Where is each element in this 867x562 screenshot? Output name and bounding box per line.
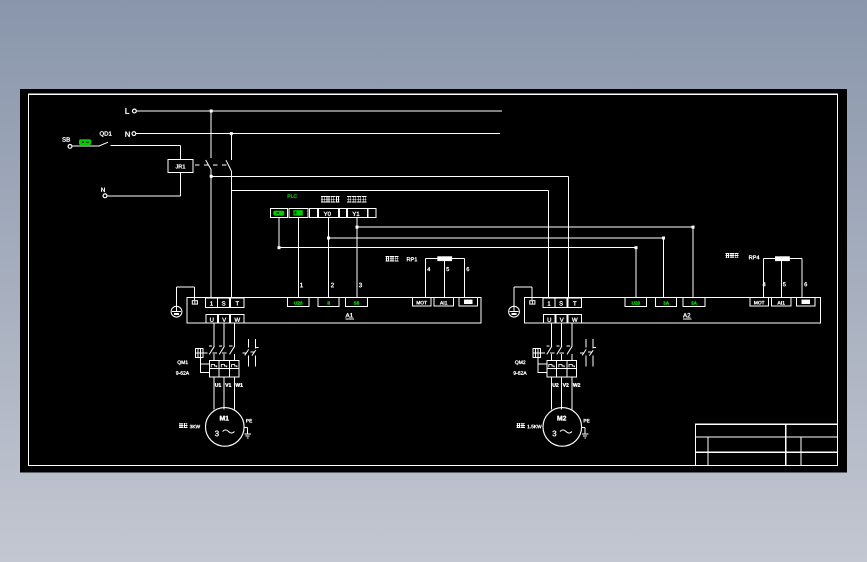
wire motor lead [233,377,235,409]
label PE [246,419,252,422]
overload relay QM2 [547,361,577,378]
label QM2 [515,361,525,365]
pin 6 [467,267,470,271]
ground PE A1 [171,306,182,317]
pin 5 [783,282,786,286]
terminal ctrl3 A1 [346,297,368,306]
inverter drive A2 [524,297,820,323]
border frame [29,94,838,465]
label PE [584,419,590,422]
wire motor lead [223,377,225,409]
terminal S A1 [218,298,230,307]
label spindle loosen [321,196,340,202]
pin 4 [427,267,430,271]
motor M2 [543,408,582,447]
trip bracket [201,358,210,373]
wire to A2 T [211,176,569,298]
label 9-62A [514,371,527,375]
aux contact QM2 NO [580,339,586,366]
inverter drive A1 [187,297,481,323]
terminal V A2 [556,314,567,323]
terminal ctrl1 A1 [288,297,310,306]
terminal U A1 [206,314,218,323]
pin 5 [446,267,449,271]
label spindle clamp [347,196,366,202]
breaker QM1 pole 1 [209,323,215,360]
breaker linkage dashed [195,164,230,166]
wire PLC out 0 [278,218,280,248]
terminal W A1 [231,314,244,323]
label U2 [553,383,559,387]
label V2 [563,383,569,386]
label power 1.5KW [516,423,541,428]
node N return [101,188,107,198]
breaker QF pole 1 [206,111,213,298]
wire motor lead [571,377,573,409]
wire PLC Y1 [356,218,358,298]
breaker QM1 pole 3 [229,323,235,360]
label power 3KW [179,423,200,428]
wire PE [177,287,195,306]
label A1 [345,313,354,319]
pin 3 [359,283,362,287]
resistor RP1 [426,256,465,261]
terminal ctrl2 A2 [656,297,677,306]
wire [107,195,180,197]
breaker QF pole 2 [226,134,231,298]
wire RP4 pin5 [781,261,783,298]
label V1 [225,383,231,386]
green highlight tag [79,139,91,145]
resistor RP4 [763,256,802,261]
operator QM2 [533,348,541,357]
wire motor lead [551,377,553,409]
breaker QM2 pole 3 [567,323,573,360]
wire RP1 pin4 [425,259,427,298]
switch SB [62,137,108,148]
wire RP4 pin6 [801,259,803,298]
linkage dashed [203,352,231,354]
aux contact QM1 NC [250,339,258,366]
label A2 [683,313,692,319]
terminal T A2 [568,298,581,307]
wire [111,144,181,146]
terminal S A2 [555,298,567,307]
title block [696,424,838,465]
motor M1 [206,408,245,447]
terminal COM A1 [459,297,478,306]
wire [179,172,181,196]
terminal AI1 A2 [772,297,792,306]
wire motor lead [561,377,563,409]
wire PE [514,287,532,306]
terminal ctrl1 A2 [625,297,647,306]
overload relay QM1 [210,361,240,378]
pin 4 [763,282,766,286]
wire net Y1 to A2 [356,226,695,298]
wire RP1 pin6 [463,259,465,298]
wire RP4 pin4 [762,259,764,298]
terminal 1 A2 [543,298,555,307]
node L [125,108,136,114]
terminal COM A2 [797,297,816,306]
trip bracket [538,358,547,373]
label potentiometer RP4 [725,253,759,259]
linkage dashed [541,352,569,354]
aux contact QM1 NO [243,339,249,366]
wire motor lead [213,377,215,409]
label QM1 [178,361,188,365]
terminal 1 A1 [206,298,218,307]
label U1 [215,383,221,386]
label W1 [235,383,242,386]
node N [125,132,135,137]
wire PLC Y0 [328,218,330,298]
breaker QM2 pole 2 [556,323,562,360]
label W2 [573,383,580,386]
terminal ctrl3 A2 [683,297,705,306]
terminal MOT A2 [750,297,769,306]
breaker QM2 pole 1 [546,323,552,360]
aux contact QM2 NC [588,339,596,366]
label QD1 [100,131,112,136]
label potentiometer RP1 [385,257,417,262]
drawing canvas [20,89,847,473]
breaker QM1 pole 2 [219,323,225,360]
terminal AI1 A1 [434,297,454,306]
ground PE A2 [509,306,520,317]
label 9-62A [176,371,189,375]
wire net Y0 to A2 [327,237,665,298]
operator QM1 [195,348,203,357]
wire net 0 to A2 [278,246,638,298]
PLC terminal strip [270,208,376,217]
ground motor M2 [582,427,589,438]
wire RP1 pin5 [444,261,446,298]
pin 1 [300,283,303,287]
pin 6 [804,282,807,286]
wire PLC out 1 [298,218,300,298]
terminal W A2 [568,314,581,323]
terminal V A1 [219,314,230,323]
terminal ctrl2 A1 [318,297,339,306]
terminal MOT A1 [413,297,432,306]
label PLC [288,194,297,198]
wire N bus [136,132,500,135]
wire L bus [136,110,502,113]
relay JR1 [168,160,193,173]
pin 2 [331,283,334,287]
wire to A2 R [231,191,548,298]
terminal U A2 [544,314,556,323]
terminal T A1 [231,298,244,307]
ground motor M1 [244,427,251,438]
wire [179,145,181,159]
